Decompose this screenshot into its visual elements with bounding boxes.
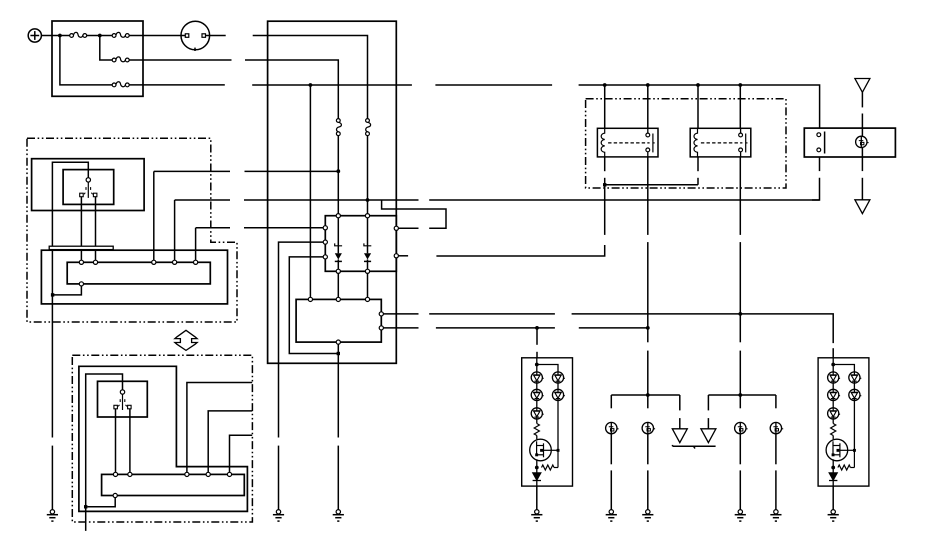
ground G4 (531, 510, 542, 522)
control unit pins (323, 214, 398, 274)
wire y85 to relay2 coil (697, 85, 699, 128)
right box (washer motor connector) (804, 128, 895, 157)
ground G8 (770, 510, 781, 522)
wire branch main line to right pin (S bend) (382, 200, 446, 228)
fuse vertical F5 (336, 119, 341, 136)
fuse F2 (112, 32, 129, 37)
wire to lamp R2 (775, 395, 777, 408)
wire to lamp L1 (610, 395, 612, 408)
wire x338 to ground (337, 446, 339, 510)
washer inner switch box (98, 381, 148, 417)
washer stream line (673, 445, 716, 449)
lamp R1 (735, 422, 748, 433)
relay 2 (690, 128, 751, 157)
wire right box bottom terminal down to main line (819, 157, 821, 171)
wire washer terminal R down (129, 409, 131, 472)
wire motor pin y314 to right (383, 313, 418, 315)
combination switch assembly (dash-dot boundary, upper) (27, 138, 237, 322)
arrow to other page (top) (855, 79, 870, 93)
diode D1 (335, 218, 342, 269)
washer switch (lower) (114, 390, 131, 410)
wire bus1 down to row3 (60, 36, 112, 85)
nozzle arrow left (672, 429, 687, 443)
lamp L2 (642, 422, 655, 433)
wire F6 down to control unit (367, 136, 369, 216)
fuse F4 (112, 82, 129, 87)
connector pins (upper assembly) (79, 260, 197, 286)
wire bus2 down to row2 (100, 36, 112, 61)
wire relay2 contact down (739, 157, 741, 235)
wire pin up to y382 stub (187, 383, 252, 473)
lamp L1 (606, 422, 619, 433)
inter-diagram connector symbol (175, 330, 197, 350)
node square x85 (84, 505, 87, 508)
wire y314 into right unit (832, 348, 834, 358)
arrow to other page (bottom) (855, 200, 870, 214)
wire row2 (129, 59, 231, 61)
node square relay coils (603, 183, 606, 186)
wire control unit pin to ground x278 (279, 242, 326, 437)
wire motor pin y328 to right (383, 327, 418, 329)
wire pin up to y228 (195, 228, 197, 260)
wire relay coil link (605, 184, 698, 186)
wire pin up to y200 (174, 200, 176, 260)
wire main bus y85 segment C to right box (579, 85, 820, 128)
wire L2 to ground (647, 434, 649, 465)
bulb in right box (856, 136, 869, 147)
battery + (28, 29, 41, 42)
switch housing box (32, 159, 145, 211)
connector housing box (41, 250, 227, 304)
wire battery to fuse box (41, 35, 69, 37)
wire pin to node square (upper) (54, 286, 81, 295)
wire F2 to ignition switch (129, 35, 186, 37)
fuse vertical F6 (366, 119, 371, 136)
wire right unit to ground (832, 486, 834, 509)
node dot x740 y314 (738, 312, 742, 316)
washer switch housing outline (79, 366, 248, 511)
relay box (dash-dot) (586, 99, 786, 188)
wire to nozzle arrow right (707, 395, 709, 410)
node dot x648 y328 (646, 326, 650, 330)
lamp group left rail (611, 394, 680, 396)
fuse F1 (70, 32, 87, 37)
ground G2 (273, 510, 284, 522)
combination switch assembly (dash-dot boundary, lower) (72, 355, 252, 522)
node dot y85 x648 (646, 83, 650, 87)
intermittent unit (right) (818, 358, 869, 486)
ground G9 (828, 510, 839, 522)
node dot bus2 (98, 34, 102, 38)
wire left unit to ground (536, 486, 538, 509)
wire pin up to y411 stub (208, 411, 252, 472)
inner switch box (63, 170, 114, 205)
node square x338 y353 (337, 352, 340, 355)
wire F5 down to control unit (337, 136, 339, 216)
node dot y85 x604 (603, 83, 607, 87)
fuse F3 (112, 57, 129, 62)
wire main line y200 left (175, 199, 230, 201)
connector pins (lower assembly) (113, 472, 231, 497)
wire control unit pin to node x289 (289, 257, 338, 354)
wire ignition switch output (206, 35, 226, 37)
node dot x338 y171 (336, 169, 340, 173)
ground G3 (333, 510, 344, 522)
wiper motor box (296, 299, 381, 342)
ground G1 (47, 510, 58, 522)
wire relay2 coil down (697, 157, 699, 171)
wire switch common to left column (52, 162, 88, 437)
wire left y228 to control unit (196, 227, 230, 229)
wire D1 pin to motor pin (337, 271, 339, 299)
node dot x537 y328 (535, 326, 539, 330)
right box contacts (817, 132, 825, 154)
node dot bus1 (58, 34, 62, 38)
wire to nozzle arrow left (679, 395, 681, 410)
wire main bus y85 segment A (252, 84, 412, 86)
wiper motor pins (308, 297, 383, 344)
wiper switch (upper) (80, 178, 97, 198)
wire relay1 coil down (604, 157, 606, 171)
control unit box (325, 216, 396, 272)
wire bulb down (861, 148, 863, 172)
wire row2 resume to fuse column (245, 60, 338, 118)
node dot y85 x310 (309, 83, 313, 87)
wire L1 to ground (610, 434, 612, 465)
node dot x367 y200 (366, 198, 370, 202)
wire main line y200 right (429, 199, 819, 201)
wire to lamp R1 (739, 395, 741, 408)
wire y85 to relay1 contact (647, 85, 649, 128)
node dot y85 x698 (696, 83, 700, 87)
wire wiper motor pin down to node (337, 342, 339, 437)
wire D2 pin to motor pin (367, 271, 369, 299)
ground G7 (735, 510, 746, 522)
wire right pin y256 to relay coils (398, 255, 408, 257)
wire y85 to relay1 coil (604, 85, 606, 128)
wire relay1 contact down (647, 157, 649, 235)
intermittent unit (left) (522, 358, 573, 486)
wire row3 (129, 84, 224, 86)
wire main bus y85 segment B (435, 84, 552, 86)
wire R1 to ground (739, 434, 741, 465)
wire to lamp L2 (647, 395, 649, 408)
ground G5 (606, 510, 617, 522)
lamp R2 (770, 422, 783, 433)
wire y85 to relay2 contact (739, 85, 741, 128)
node dot x648 y395 (646, 393, 650, 397)
connector inner rectangle (lower) (102, 474, 245, 495)
wire to central box (row1 resume) (253, 36, 368, 119)
connector bar (49, 246, 113, 249)
node square x52 (51, 293, 54, 296)
central outer box (268, 21, 397, 363)
wire washer switch common (86, 374, 123, 531)
wire left y171 to control unit (154, 170, 230, 172)
fuse box (52, 21, 143, 96)
diode D2 (364, 218, 371, 269)
wire pin up to y435 stub (230, 435, 253, 472)
wire x52 to ground (51, 446, 53, 510)
wire y328 into left unit (536, 328, 538, 345)
wire bulb up (861, 92, 863, 107)
ignition switch (181, 21, 210, 51)
relay 1 (597, 128, 658, 157)
wire switch terminal R down (95, 197, 97, 260)
node dot x740 y395 (738, 393, 742, 397)
wire washer terminal L down (115, 409, 117, 472)
lamp group right rail (708, 394, 776, 396)
node dot y85 x740 (738, 83, 742, 87)
wire pin to node square (lower) (87, 498, 115, 507)
ground G6 (642, 510, 653, 522)
wire x310 down to wiper motor (309, 85, 311, 299)
wire pin up to y171 (153, 171, 155, 260)
connector inner rectangle (67, 262, 210, 284)
wire R2 to ground (775, 434, 777, 465)
nozzle arrow right (701, 429, 716, 443)
wire F1 to F2 (87, 35, 112, 37)
wire switch terminal L down (80, 197, 82, 260)
